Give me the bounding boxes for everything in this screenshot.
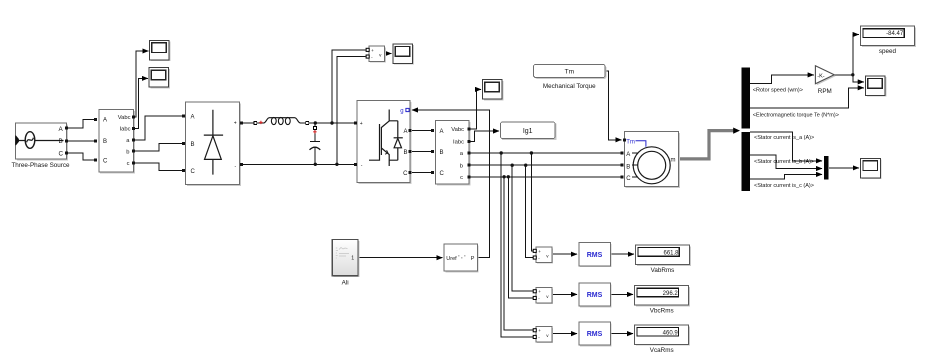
svg-text:A: A	[440, 129, 444, 135]
svg-text:<Stator current is_b (A)>: <Stator current is_b (A)>	[754, 159, 814, 165]
svg-text:C: C	[59, 151, 64, 158]
svg-text:B: B	[440, 150, 444, 156]
svg-text:RMS: RMS	[587, 292, 603, 299]
svg-text:B: B	[103, 139, 107, 145]
svg-text:C: C	[440, 171, 445, 177]
svg-text:RPM: RPM	[818, 88, 832, 95]
svg-text:c: c	[127, 161, 130, 167]
svg-text:B: B	[403, 150, 407, 156]
svg-text:m: m	[671, 158, 676, 164]
svg-text:+: +	[234, 120, 237, 126]
svg-text:Ali: Ali	[342, 280, 349, 287]
svg-text:460.9: 460.9	[663, 330, 679, 336]
svg-text:VcaRms: VcaRms	[650, 347, 674, 354]
svg-text:VbcRms: VbcRms	[650, 308, 674, 315]
svg-text:P: P	[471, 256, 475, 262]
svg-text:Mechanical Torque: Mechanical Torque	[543, 83, 596, 90]
svg-text:A: A	[403, 129, 407, 135]
svg-text:<Electromagnetic torque Te (N*: <Electromagnetic torque Te (N*m)>	[753, 112, 839, 118]
svg-text:RMS: RMS	[587, 331, 603, 338]
svg-text:A: A	[626, 152, 630, 158]
svg-text:Tm: Tm	[626, 139, 635, 145]
svg-text:B: B	[59, 138, 63, 145]
svg-text:b: b	[460, 163, 463, 169]
svg-text:C: C	[626, 176, 631, 182]
svg-text:+: +	[360, 121, 363, 127]
svg-text:Vabc: Vabc	[118, 115, 131, 121]
svg-text:b: b	[126, 149, 129, 155]
svg-text:c: c	[460, 175, 463, 181]
svg-text:-84.47: -84.47	[886, 31, 904, 37]
svg-text:RMS: RMS	[587, 252, 603, 259]
svg-text:A: A	[191, 114, 195, 120]
svg-text:<Rotor speed (wm)>: <Rotor speed (wm)>	[753, 88, 803, 94]
svg-text:Ig1: Ig1	[523, 128, 533, 135]
svg-text:g: g	[400, 109, 403, 115]
svg-text:A: A	[103, 118, 107, 124]
svg-text:speed: speed	[879, 48, 897, 55]
svg-text:Three-Phase Source: Three-Phase Source	[11, 162, 70, 169]
svg-text:B: B	[191, 142, 195, 148]
svg-text:-K-: -K-	[817, 73, 825, 79]
svg-text:<Stator current is_c (A)>: <Stator current is_c (A)>	[754, 183, 814, 189]
svg-text:C: C	[103, 159, 108, 165]
svg-text:<Stator current is_a (A)>: <Stator current is_a (A)>	[754, 135, 814, 141]
svg-text:296.2: 296.2	[663, 291, 679, 297]
svg-text:Iabc: Iabc	[120, 127, 131, 133]
svg-text:Vabc: Vabc	[451, 127, 464, 133]
svg-text:Tm: Tm	[565, 69, 574, 76]
svg-text:VabRms: VabRms	[651, 267, 675, 274]
svg-text:B: B	[626, 164, 630, 170]
svg-text:Iabc: Iabc	[453, 140, 464, 146]
svg-text:C: C	[191, 169, 196, 175]
svg-text:Uref: Uref	[446, 256, 457, 262]
svg-text:C: C	[403, 171, 408, 177]
svg-text:661.8: 661.8	[663, 250, 679, 256]
svg-text:1: 1	[351, 256, 354, 262]
